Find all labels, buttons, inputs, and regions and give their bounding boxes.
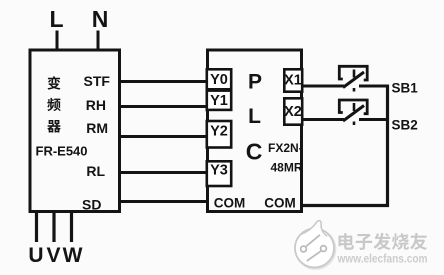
svg-text:X2: X2 <box>284 104 302 120</box>
svg-text:Y2: Y2 <box>210 124 228 140</box>
svg-text:COM: COM <box>214 196 246 211</box>
svg-text:P: P <box>248 71 262 94</box>
svg-text:C: C <box>246 139 263 165</box>
switch SB2 <box>339 100 367 125</box>
terminal box X1 <box>284 69 302 91</box>
terminal box Y2 <box>207 121 231 148</box>
wire RL to Y3 <box>119 171 207 174</box>
wire X1 to SB1 <box>303 85 344 88</box>
svg-text:X1: X1 <box>284 73 302 89</box>
svg-text:L: L <box>248 105 261 128</box>
svg-text:SB1: SB1 <box>392 81 419 96</box>
PLC box <box>208 50 302 212</box>
svg-text:RL: RL <box>86 163 105 179</box>
svg-text:FX2N-: FX2N- <box>268 141 303 155</box>
wire SB2 to bus <box>359 118 389 121</box>
wire U stub <box>35 211 38 242</box>
wire right bus vertical <box>386 85 389 208</box>
wire RH to Y1 <box>119 105 207 108</box>
svg-text:L: L <box>49 6 63 32</box>
svg-text:SD: SD <box>82 197 101 213</box>
terminal box X2 <box>284 98 302 124</box>
wire N stub <box>97 31 100 51</box>
svg-text:RM: RM <box>86 120 108 136</box>
inverter text 器 <box>47 120 61 133</box>
watermark char 友 <box>410 233 427 250</box>
watermark char 烧 <box>392 233 409 250</box>
watermark char 子 <box>356 234 372 250</box>
svg-text:V: V <box>46 244 60 267</box>
wire RM to Y2 <box>119 135 207 138</box>
wire L stub <box>56 31 59 51</box>
svg-text:N: N <box>92 6 109 32</box>
svg-text:RH: RH <box>86 97 106 113</box>
wire bus bottom to COM <box>303 204 389 207</box>
terminal box Y0 <box>207 69 231 89</box>
svg-text:Y0: Y0 <box>210 72 228 88</box>
svg-text:SB2: SB2 <box>392 118 418 133</box>
watermark char 电 <box>338 233 354 250</box>
wire V stub <box>52 211 55 242</box>
wire SB1 to bus <box>359 85 389 88</box>
svg-text:COM: COM <box>264 196 296 211</box>
terminal box Y3 <box>207 161 231 186</box>
watermark char 发 <box>373 233 390 250</box>
wire STF to Y0 <box>119 80 207 83</box>
svg-text:Y1: Y1 <box>210 93 228 109</box>
wire W stub <box>70 211 73 242</box>
svg-text:Y3: Y3 <box>210 163 228 179</box>
terminal box Y1 <box>207 91 231 110</box>
wire SD to COM <box>119 200 207 203</box>
wire X2 to SB2 <box>303 118 344 121</box>
inverter text 变 <box>48 76 61 89</box>
watermark logo circle <box>295 221 335 269</box>
svg-text:STF: STF <box>84 73 111 89</box>
inverter text 频 <box>47 98 60 111</box>
svg-text:www.elecfans.com: www.elecfans.com <box>337 252 428 266</box>
svg-text:FR-E540: FR-E540 <box>36 144 88 159</box>
svg-text:U: U <box>28 244 43 267</box>
inverter box FR-E540 <box>30 50 120 212</box>
svg-text:W: W <box>63 244 83 267</box>
svg-text:48MR: 48MR <box>271 161 303 175</box>
switch SB1 <box>339 66 367 91</box>
